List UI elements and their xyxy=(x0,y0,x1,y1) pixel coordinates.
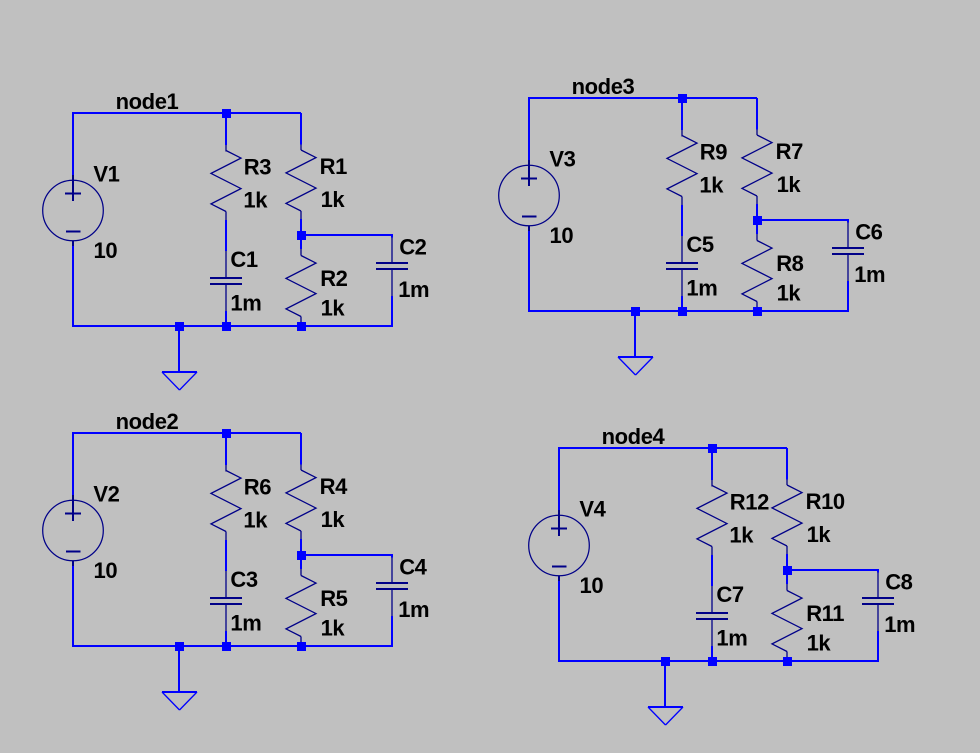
svg-text:C4: C4 xyxy=(399,554,427,579)
svg-text:V3: V3 xyxy=(549,146,575,171)
svg-text:C8: C8 xyxy=(885,569,912,594)
svg-text:R11: R11 xyxy=(806,601,844,626)
svg-text:R7: R7 xyxy=(776,139,803,164)
svg-text:node1: node1 xyxy=(116,89,179,114)
svg-text:1k: 1k xyxy=(321,187,346,212)
svg-text:1k: 1k xyxy=(243,188,268,213)
svg-text:1k: 1k xyxy=(243,508,268,533)
svg-text:R4: R4 xyxy=(320,474,348,499)
svg-text:V1: V1 xyxy=(93,161,119,186)
svg-text:R1: R1 xyxy=(320,154,347,179)
svg-text:R5: R5 xyxy=(320,586,347,611)
svg-text:C3: C3 xyxy=(230,567,257,592)
svg-text:1k: 1k xyxy=(729,523,754,548)
svg-text:C2: C2 xyxy=(399,234,426,259)
svg-text:1m: 1m xyxy=(716,626,747,651)
svg-text:C6: C6 xyxy=(855,219,882,244)
svg-text:1m: 1m xyxy=(884,612,915,637)
svg-text:node3: node3 xyxy=(572,74,635,99)
svg-text:1k: 1k xyxy=(321,507,346,532)
svg-text:R2: R2 xyxy=(320,266,347,291)
svg-text:1m: 1m xyxy=(398,597,429,622)
svg-text:10: 10 xyxy=(580,573,604,598)
svg-text:1k: 1k xyxy=(777,172,802,197)
svg-text:R10: R10 xyxy=(806,489,845,514)
svg-text:1k: 1k xyxy=(321,296,346,321)
svg-text:V4: V4 xyxy=(579,496,606,521)
svg-text:1m: 1m xyxy=(398,277,429,302)
svg-text:C1: C1 xyxy=(230,247,257,272)
svg-text:V2: V2 xyxy=(93,481,119,506)
svg-text:1m: 1m xyxy=(230,611,261,636)
svg-text:1k: 1k xyxy=(807,522,832,547)
svg-text:1m: 1m xyxy=(854,262,885,287)
svg-text:1m: 1m xyxy=(230,291,261,316)
svg-text:C5: C5 xyxy=(686,232,713,257)
svg-text:R8: R8 xyxy=(776,251,803,276)
svg-text:1k: 1k xyxy=(807,631,832,656)
svg-text:node2: node2 xyxy=(116,409,179,434)
svg-text:node4: node4 xyxy=(602,424,666,449)
svg-text:C7: C7 xyxy=(716,582,743,607)
svg-text:1m: 1m xyxy=(686,276,717,301)
svg-text:10: 10 xyxy=(94,238,118,263)
svg-text:R3: R3 xyxy=(244,154,271,179)
svg-text:1k: 1k xyxy=(777,281,802,306)
svg-text:10: 10 xyxy=(94,558,118,583)
svg-text:R6: R6 xyxy=(244,474,271,499)
svg-text:1k: 1k xyxy=(699,173,724,198)
svg-text:R12: R12 xyxy=(730,489,769,514)
svg-text:1k: 1k xyxy=(321,616,346,641)
svg-text:R9: R9 xyxy=(700,139,727,164)
svg-text:10: 10 xyxy=(550,223,574,248)
